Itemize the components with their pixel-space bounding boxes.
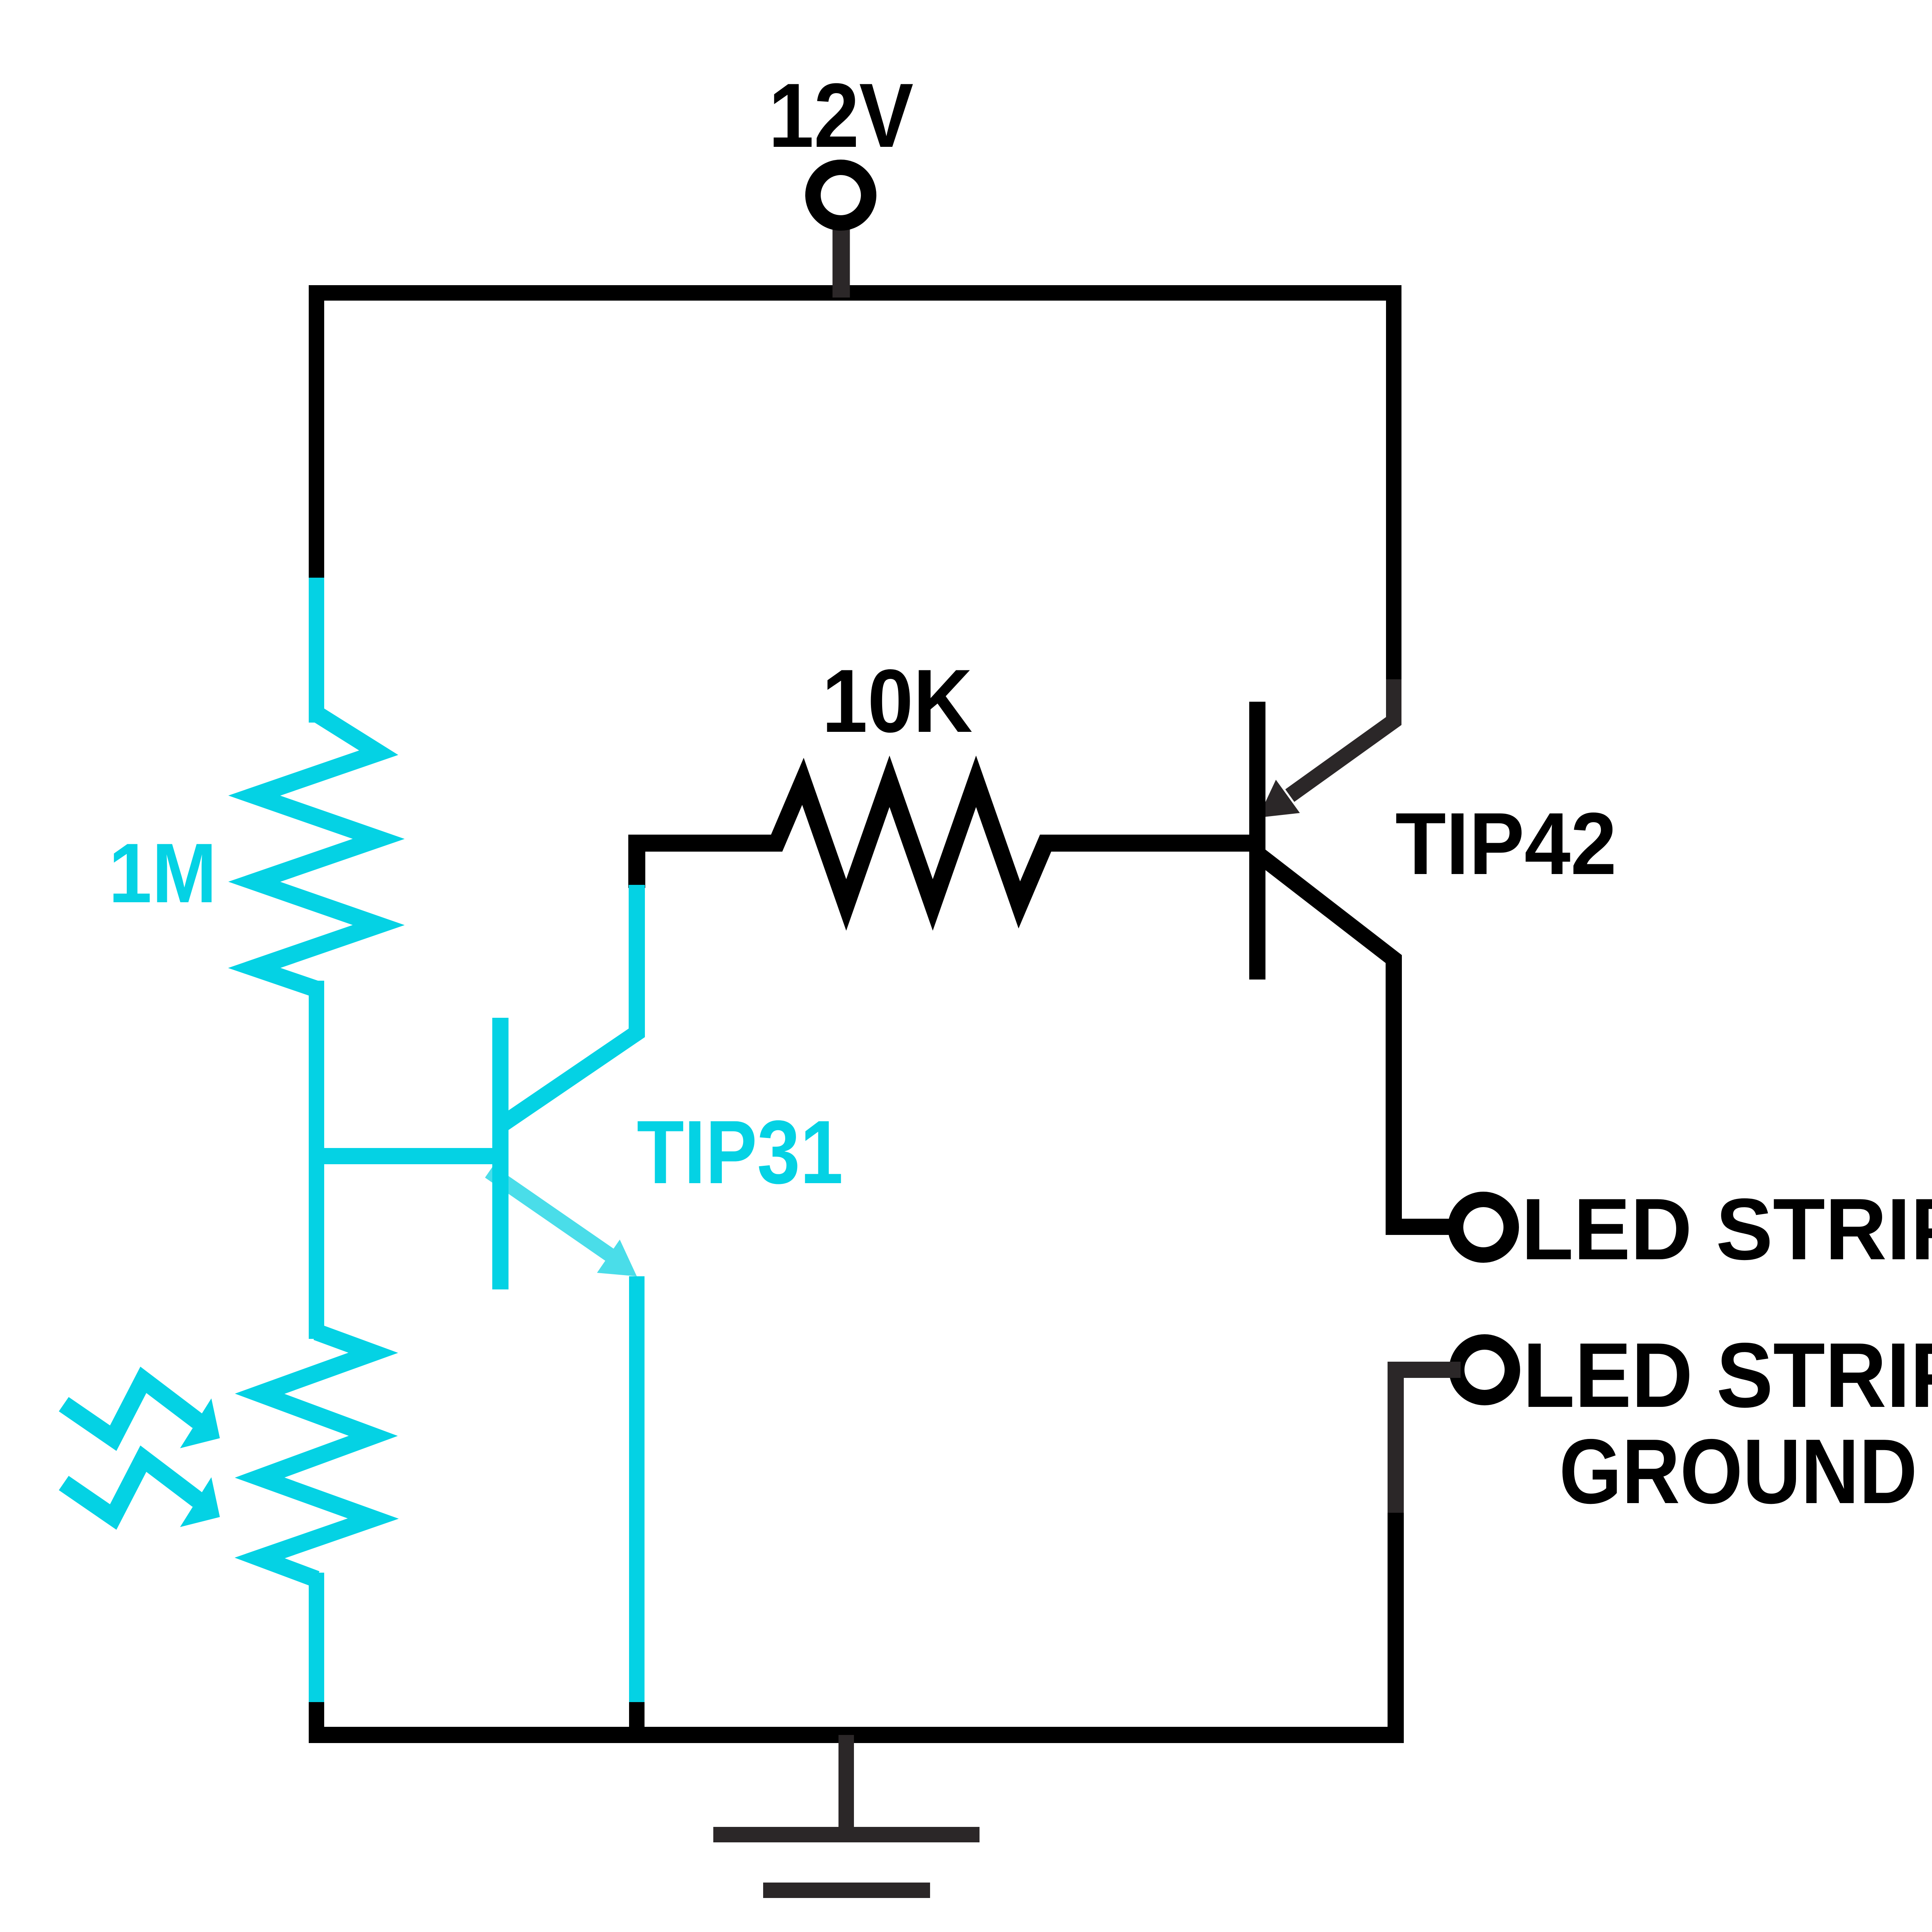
- svg-text:12V: 12V: [769, 65, 913, 167]
- svg-text:TIP42: TIP42: [1395, 795, 1617, 893]
- svg-text:LED STRIP: LED STRIP: [1523, 1324, 1932, 1427]
- svg-text:10K: 10K: [822, 651, 973, 751]
- svg-text:TIP31: TIP31: [637, 1102, 843, 1202]
- svg-text:GROUND: GROUND: [1559, 1420, 1917, 1523]
- svg-text:1M: 1M: [109, 826, 217, 920]
- svg-text:LED STRIP +V: LED STRIP +V: [1521, 1180, 1932, 1278]
